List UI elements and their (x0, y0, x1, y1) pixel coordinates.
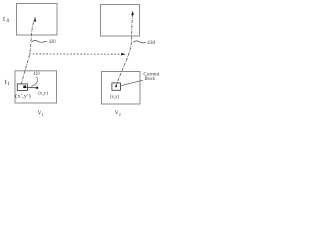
label V1 (37, 111, 43, 117)
svg-text:420: 420 (49, 39, 56, 45)
arrowhead of motion vector 430 (131, 11, 134, 16)
label t0 (3, 14, 10, 24)
current block in picture V2 (112, 83, 121, 90)
arrowhead of dashed copy arrow (121, 53, 126, 56)
picture frame V2 (bottom-right current picture) (102, 72, 141, 105)
block 410 (co-located block in picture V1) (17, 84, 27, 91)
label (x',y') (15, 93, 31, 100)
motion vector 420 (dash-dot arrow from block 410 up into t0 picture) (21, 20, 34, 85)
point (x,y) in V2 (black dot) (115, 85, 117, 87)
svg-text:(x,y): (x,y) (38, 90, 48, 97)
picture frame V1 (bottom-left co-located picture) (15, 71, 57, 103)
dashed motion-vector copy arrow between the two vectors (29, 53, 121, 55)
svg-text:1: 1 (42, 112, 44, 117)
leader line from Current Block label to current block (121, 80, 143, 85)
label (x,y) in V2 (110, 93, 119, 100)
leader line from label 410 to block (31, 77, 37, 87)
svg-text:Block: Block (145, 76, 156, 82)
sample marker at (x',y') (black square) (23, 86, 26, 89)
svg-text:410: 410 (33, 72, 40, 77)
arrowhead of motion vector 420 (34, 17, 36, 22)
leader squiggle for label 430 (133, 41, 146, 43)
svg-text:430: 430 (147, 40, 156, 46)
svg-text:0: 0 (7, 18, 10, 24)
label 410 (33, 72, 40, 77)
svg-text:1: 1 (7, 81, 10, 87)
picture frame at time t0 (top-left reference picture) (17, 4, 58, 36)
svg-text:(x,y): (x,y) (110, 93, 119, 100)
label Current Block (143, 72, 160, 83)
svg-text:t: t (3, 14, 6, 23)
label (x,y) in V1 (38, 90, 48, 97)
svg-text:2: 2 (119, 112, 121, 117)
connector line from (x',y') to (x,y) in V1 (26, 86, 36, 88)
point (x,y) in V1 (black dot) (36, 87, 38, 89)
picture frame (top-right reference picture) (101, 5, 140, 37)
label 420 (49, 39, 56, 45)
label V2 (115, 110, 121, 116)
svg-text:(x′,y′): (x′,y′) (15, 93, 31, 100)
leader squiggle for label 420 (32, 40, 48, 42)
label t1 (5, 77, 11, 87)
label 430 (147, 40, 156, 46)
motion vector 430 (dash-dot arrow from current block up into top-right picture) (116, 15, 132, 86)
